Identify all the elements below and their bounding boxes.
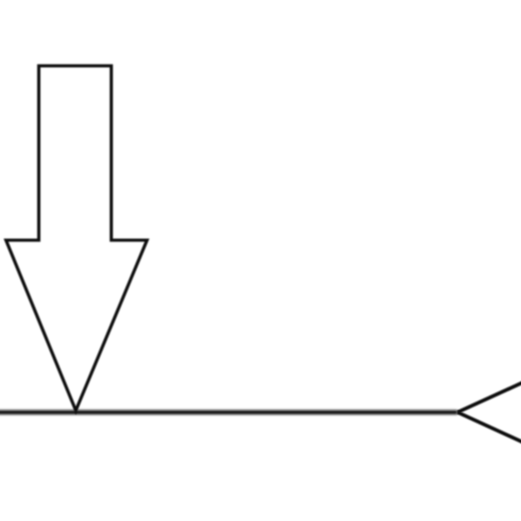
open arrowhead: upper branch [458,382,521,412]
hollow down arrow [6,66,147,411]
open arrowhead: lower branch [458,412,521,442]
wire [0,410,458,414]
